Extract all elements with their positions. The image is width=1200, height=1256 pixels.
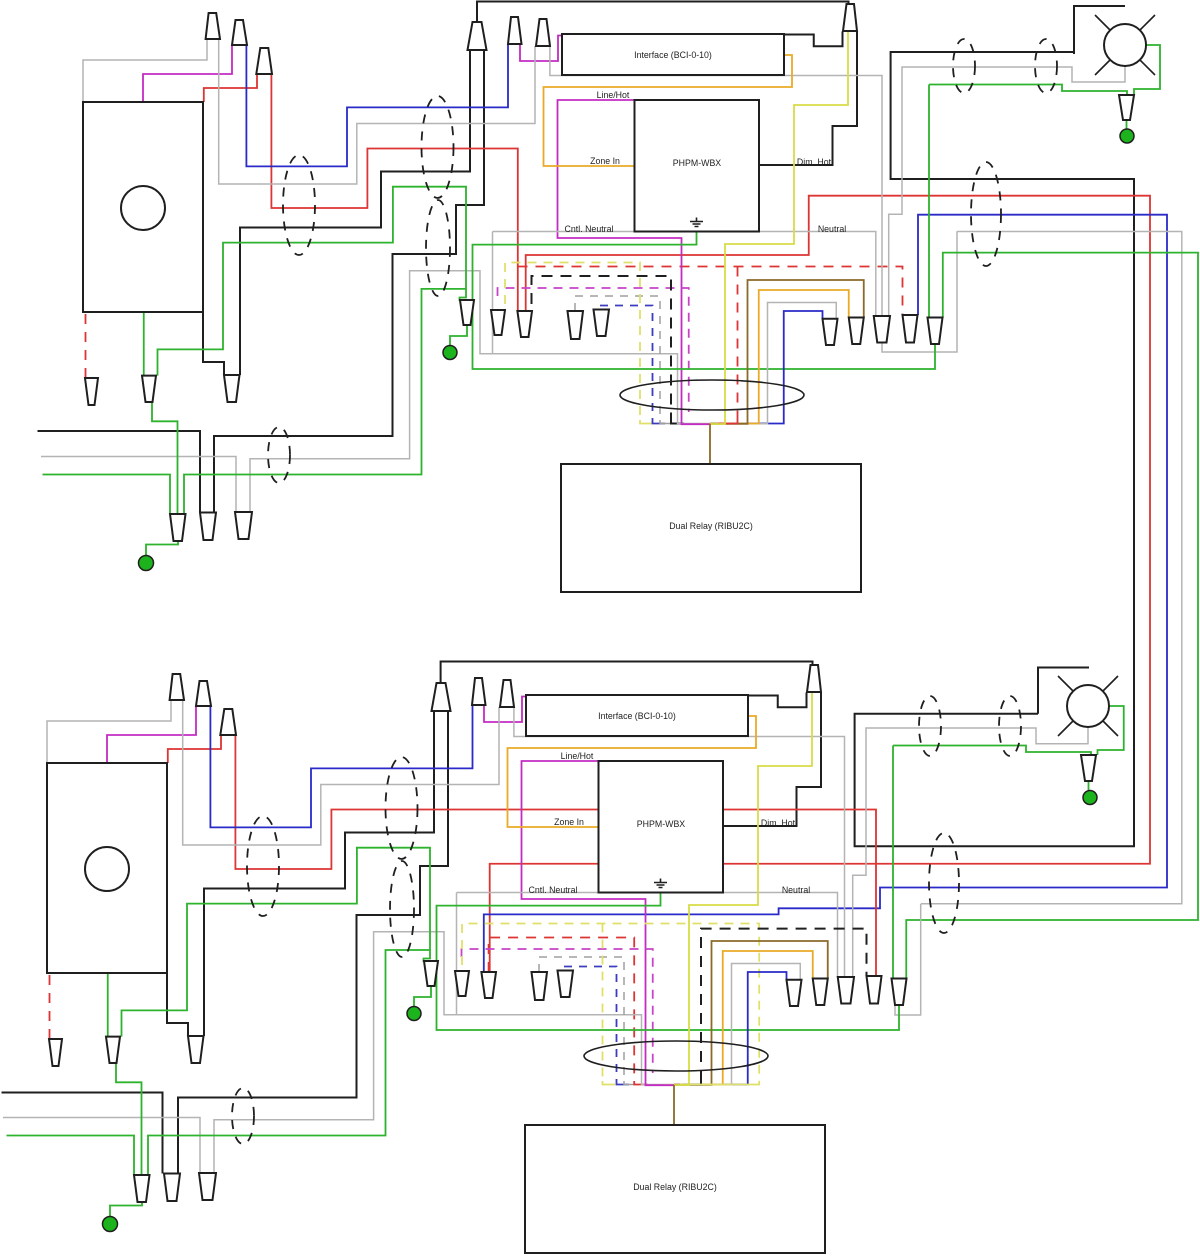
wire green nut L2 to nut M1 <box>152 402 178 514</box>
wire yellow dashed nut D2b to relay bundle 2 <box>462 924 759 1082</box>
wire red riser nut D3 to bottom nut D3b <box>490 196 1150 972</box>
conduit ellipse E6b <box>929 833 959 933</box>
conduit ellipse E3 <box>426 200 450 296</box>
wire green lamp2 to lamp nut 2 <box>1098 706 1124 755</box>
wire nut LN2 lamp <box>1081 755 1096 781</box>
wire gray dashed nut D4b to relay bundle 2 <box>539 957 624 1081</box>
wire gray stub nut R3b to bus <box>895 904 921 1015</box>
wire nut R1 <box>823 319 838 345</box>
wire red nut N3 to nut D3 <box>271 74 517 311</box>
wire red nut N3 to switch box <box>204 74 257 102</box>
wire green switch box 2 to nut L2b <box>107 973 109 1037</box>
wire nut D3 <box>517 311 532 337</box>
svg-text:Interface (BCI-0-10): Interface (BCI-0-10) <box>598 711 676 721</box>
svg-text:Dim. Hot: Dim. Hot <box>761 818 796 828</box>
wire nut D2b <box>455 971 469 996</box>
wire yellow dashed nut D2 to relay bundle <box>505 263 640 421</box>
wire magenta nut N2 to switch box <box>143 45 232 102</box>
switch box SW2 <box>47 763 167 973</box>
interface box 2 BCI-0-10 <box>526 695 748 736</box>
lamp fixture box top right <box>1074 6 1125 54</box>
wire magenta nut N4b to interface2 <box>484 697 527 723</box>
wire gray nut N1b to switch box 2 <box>47 700 171 763</box>
wire gray nut N1b to nut N5b <box>183 700 499 845</box>
wire brown bundle 2 to dual relay 2 <box>673 1085 675 1125</box>
wire gray nut N5b to nut R3b <box>514 707 845 977</box>
cable ellipse above dual relay <box>620 380 804 410</box>
svg-text:Dual Relay (RIBU2C): Dual Relay (RIBU2C) <box>633 1182 717 1192</box>
wire gray feeder left to nut M3 <box>41 457 236 513</box>
wire nut D5 <box>594 310 610 337</box>
wire nut N6b <box>807 665 821 692</box>
wire black hot nut NB2 to nut L3b <box>204 711 434 1036</box>
wire nut D4b <box>532 972 548 1000</box>
wire nut N1 <box>206 13 220 39</box>
wire nut M3b <box>199 1173 216 1200</box>
wire black interface2 to nut N6b <box>748 693 807 708</box>
conduit ellipse E6 <box>971 162 1001 266</box>
wire nut R2b <box>813 979 828 1006</box>
wire nut L3b <box>188 1036 204 1063</box>
wire blue nut N2b to nut N4b <box>210 705 472 827</box>
wire black feeder left to nut M2b <box>2 1093 163 1174</box>
wire nut M1b <box>134 1175 150 1202</box>
conduit ellipse E2b <box>386 757 418 859</box>
wire gray web nut D2b to relay bundle 2 and nut M3b <box>457 893 838 978</box>
wire magenta nut N4 to interface <box>520 36 563 62</box>
svg-text:Cntl. Neutral: Cntl. Neutral <box>529 885 578 895</box>
wire green lamp feeder to nut R5 <box>929 85 1127 96</box>
wire nut R4b <box>867 976 882 1004</box>
wire blue dashed nut D5 to relay bundle <box>600 306 653 421</box>
conduit ellipse E5ab <box>919 696 941 756</box>
wire red dashed nut D3b to relay bundle 2 <box>489 938 635 1082</box>
conduit ellipse E5bb <box>999 696 1021 756</box>
wire nut L3 <box>224 375 240 402</box>
wire yellow dashed branch 2 <box>602 924 604 1082</box>
svg-text:PHPM-WBX: PHPM-WBX <box>637 819 686 829</box>
wire gray nut N1 to switch box <box>83 39 207 102</box>
wire nut N2b <box>196 681 211 706</box>
wire red nut N3b to switch box 2 <box>168 735 221 763</box>
wire nut M2b <box>164 1174 180 1202</box>
wire brown bundle to dual relay <box>709 424 711 464</box>
wire nut N4 <box>508 17 522 44</box>
wire nut D4 <box>568 311 584 339</box>
svg-text:Zone In: Zone In <box>554 817 584 827</box>
svg-text:Neutral: Neutral <box>818 224 846 234</box>
wire nut R4 <box>903 315 918 343</box>
wire nut L1 <box>85 378 98 405</box>
wire nut N5b <box>500 680 514 707</box>
wire gray bundle 2 to nut R1b <box>732 964 801 1082</box>
wire green feeder left to nut M1b <box>7 1136 135 1176</box>
wire nut R2 <box>849 318 864 345</box>
wire brown bundle to nut R2 <box>748 280 864 420</box>
wire black lamp feed riser top to bottom lamp <box>855 52 1134 846</box>
wire black switch box corner to nut L3 <box>203 312 224 375</box>
wire black stem nut NB to nut N6 <box>477 2 849 23</box>
ground dot lamp 2 <box>1083 791 1097 805</box>
wire gray nut N5 to nut R3 <box>550 46 882 316</box>
wire green nut L2b to nut M1b <box>116 1063 142 1175</box>
wire nut N4b <box>472 678 486 705</box>
wire green PHPM ground to nut R5 <box>473 232 936 370</box>
wire black interface to nut N6 <box>784 32 843 47</box>
wire green nut D1b pigtail to ground dot <box>414 986 431 1007</box>
wire brown bundle 2 to nut R2b <box>712 941 828 1081</box>
ground symbol PHPM <box>690 218 703 227</box>
wire gray lamp neutral to bus <box>889 66 1125 316</box>
wire black dashed relay bundle 2 to nut R4b <box>701 929 867 1081</box>
conduit ellipse E2 <box>422 96 454 198</box>
wire green nut M1b pigtail to ground dot <box>110 1202 142 1217</box>
wire nut N2 <box>232 20 247 45</box>
svg-text:Dual Relay (RIBU2C): Dual Relay (RIBU2C) <box>669 521 753 531</box>
wire nut N3b <box>220 709 236 735</box>
conduit ellipse E4b <box>232 1088 254 1144</box>
PHPM-WBX box 2 <box>599 761 724 893</box>
relay bundle 2 convergence <box>603 1081 616 1085</box>
dual relay box RIBU2C <box>561 464 861 592</box>
wire nut R3b <box>838 977 854 1004</box>
wire blue riser nut R4 to bottom nut D3b <box>484 215 1167 972</box>
svg-text:Neutral: Neutral <box>782 885 810 895</box>
svg-text:Line/Hot: Line/Hot <box>597 90 630 100</box>
wire blue bundle to nut R1 <box>784 311 823 420</box>
relay bundle convergence <box>640 420 652 424</box>
wire yellow nut N6b to relay bundle 2 <box>689 692 812 1081</box>
wire red dashed branch to relay bundle <box>737 267 739 421</box>
svg-text:Cntl. Neutral: Cntl. Neutral <box>565 224 614 234</box>
wire black feeder left to nut M2 <box>38 431 201 513</box>
ground dot M1 <box>139 556 154 571</box>
wire nut R3 <box>874 316 890 343</box>
wire gray lamp2 neutral to riser bus <box>853 727 1088 977</box>
wire orange interface2 to Zone In 2 <box>508 716 757 827</box>
wire nut M3 <box>235 512 252 539</box>
wire nut L2 <box>142 376 156 402</box>
wire green lamp nut stem to ground dot <box>1126 120 1128 130</box>
wire nut LN lamp <box>1119 95 1134 120</box>
wire blue nut N2 to nut N4 <box>246 44 508 166</box>
conduit ellipse E5a <box>953 39 975 93</box>
ground dot D1b <box>407 1007 421 1021</box>
ground dot D1 <box>443 346 457 360</box>
wire magenta dashed nut D3b to relay bundle 2 <box>462 949 653 1073</box>
lamp L1 <box>1104 24 1146 66</box>
wire red dashed switch box to nut L1 <box>85 314 87 377</box>
wire black stem nut NB2 to nut N6b <box>441 662 813 684</box>
svg-text:Interface (BCI-0-10): Interface (BCI-0-10) <box>634 50 712 60</box>
wire magenta nut N2b to switch box 2 <box>107 706 196 763</box>
wire black hot nut NB2 to nut M2b <box>178 711 448 1174</box>
wire magenta Line/Hot Cntl Neutral PHPM to relay bundle <box>558 100 682 420</box>
wire red nut N3b to nut R4b <box>235 735 876 976</box>
ground dot lamp <box>1120 129 1134 143</box>
wire nut N5 <box>536 19 550 46</box>
wire green branch to nut M1b <box>148 950 430 1175</box>
wire black dashed nut D3 to relay bundle <box>532 276 672 420</box>
lamp fixture box 2 <box>1038 668 1089 714</box>
conduit ellipse E3b <box>390 861 414 957</box>
svg-text:Line/Hot: Line/Hot <box>561 751 594 761</box>
wire green lamp nut 2 stem to ground dot <box>1088 781 1090 791</box>
wire green nut M1 pigtail to ground dot <box>146 541 178 556</box>
wire gray neutral bus riser to bottom nut R3b <box>493 232 876 317</box>
wire green riser nut R5 to bottom nut R5b <box>906 253 1198 979</box>
ground symbol PHPM2 <box>654 879 667 888</box>
wire nut N3 <box>256 48 272 74</box>
wire green lamp2 feeder to nut R5b <box>893 746 1091 756</box>
wire nut L1b <box>49 1039 62 1066</box>
wire gray dashed nut D4 to relay bundle <box>575 296 660 420</box>
wire gray nut N1 to nut N5 <box>219 39 535 184</box>
wire orange bundle 2 to nut R2b <box>723 951 813 1081</box>
wire green PHPM2 ground to nut R5b <box>437 893 900 1031</box>
wire nut D1 <box>460 300 474 325</box>
wire orange bundle to nut R2 <box>759 290 849 420</box>
wire nut R5 <box>928 318 943 345</box>
wire black Dim. Hot PHPM to nut N6 <box>759 31 857 165</box>
conduit ellipse E1b <box>247 816 279 916</box>
wire nut R1b <box>787 980 802 1006</box>
wire nut L2b <box>106 1037 120 1063</box>
wire green nut D1 pigtail to ground dot <box>450 325 467 346</box>
wire black hot nut NB to nut L3 <box>240 50 470 375</box>
wire nut D1b <box>424 961 438 986</box>
wire green nut L2b to nut D1b <box>122 848 431 1037</box>
wire green feeder left to nut M1 <box>43 475 171 515</box>
wire nut M1 <box>170 514 186 541</box>
wire green lamp to lamp nut <box>1134 45 1160 95</box>
svg-text:Dim. Hot: Dim. Hot <box>797 157 832 167</box>
wire nut D2 <box>491 310 505 335</box>
wire magenta dashed nut D3 to relay bundle <box>498 288 689 412</box>
wire red dashed nut D3 to nut R4 <box>518 267 903 315</box>
dual relay box 2 RIBU2C <box>525 1125 825 1253</box>
wire nut NB2 <box>432 683 451 711</box>
wire black switch box 2 corner to nut L3b <box>167 973 188 1036</box>
wire nut R5b <box>892 979 907 1006</box>
wire nut N1b <box>170 674 184 700</box>
wire green switch box to nut L2 <box>143 312 145 376</box>
wire nut D5b <box>558 971 574 998</box>
conduit ellipse E4 <box>268 427 290 483</box>
lamp L2 <box>1067 685 1109 727</box>
PHPM-WBX box <box>635 100 760 232</box>
svg-text:PHPM-WBX: PHPM-WBX <box>673 158 722 168</box>
wire nut D3b <box>481 972 496 998</box>
wire black Dim. Hot PHPM2 to nut N6b <box>723 692 822 826</box>
wire yellow nut N6 to relay bundle <box>725 31 848 420</box>
wire black hot nut NB to nut M2 <box>214 50 484 513</box>
conduit ellipse E1 <box>283 155 315 255</box>
ground dot M1b <box>103 1217 118 1232</box>
wire blue bundle 2 to nut R1b <box>748 972 787 1081</box>
wire blue dashed nut D5b to relay bundle 2 <box>564 967 617 1082</box>
wire gray stub nut R3 to bus <box>882 232 957 353</box>
switch box SW1 <box>83 102 203 312</box>
wire gray bundle to nut R1 <box>768 303 837 421</box>
wire gray feeder left to nut M3b <box>3 1118 200 1174</box>
interface box BCI-0-10 <box>562 34 784 75</box>
wire nut N6 <box>843 4 857 31</box>
wire gray web nut D2 to relay bundle and nut M3 <box>492 232 494 354</box>
wire green branch to nut M1 <box>184 289 466 514</box>
wire magenta Cntl Neutral PHPM2 to relay bundle 2 <box>522 761 646 1081</box>
wire red dashed switch box 2 to nut L1b <box>49 975 51 1038</box>
svg-text:Zone In: Zone In <box>590 156 620 166</box>
wire green nut L2 to nut D1 <box>158 187 467 376</box>
conduit ellipse E5b <box>1035 39 1057 93</box>
wire nut M2 <box>200 513 216 541</box>
wire orange interface to Zone In <box>544 55 793 166</box>
wire nut NB <box>468 22 487 50</box>
cable ellipse above dual relay 2 <box>584 1041 768 1071</box>
